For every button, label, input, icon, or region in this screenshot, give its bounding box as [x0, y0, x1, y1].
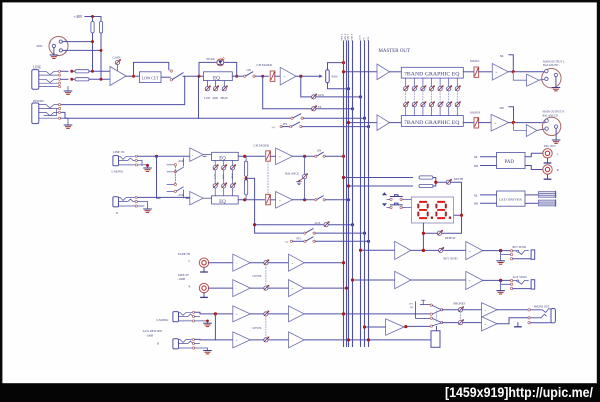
wire REPEAT row [423, 215, 461, 233]
node line ring [70, 78, 73, 81]
button echo up [382, 192, 387, 195]
node R1 join [91, 70, 94, 73]
svg-text:REV SEND: REV SEND [513, 246, 527, 249]
ground XLR R [555, 128, 557, 139]
node aux ret L bus tap [342, 312, 345, 315]
wire preamp out [126, 75, 140, 77]
ground RCA R [547, 174, 549, 179]
svg-text:+: + [485, 322, 487, 326]
op-amp main L output U9 [492, 64, 508, 81]
svg-text:7BAND GRAPHIC EQ: 7BAND GRAPHIC EQ [404, 120, 460, 126]
svg-text:PAN: PAN [332, 75, 339, 79]
connector jack aux return R [173, 339, 179, 349]
wire gang aux level dashed [265, 316, 267, 339]
node EQ output [235, 75, 238, 78]
op-amp master L U7 [377, 64, 390, 80]
resistor phantom R2 [99, 21, 102, 33]
svg-text:MAIN R: MAIN R [470, 110, 480, 114]
svg-text:REPEAT: REPEAT [445, 236, 456, 240]
wire switch to phones pot R [442, 322, 458, 324]
connector INSERT jack [32, 103, 39, 124]
svg-text:7BAND GRAPHIC EQ: 7BAND GRAPHIC EQ [404, 72, 460, 78]
svg-text:-: - [380, 121, 381, 125]
svg-text:PHONE OUT: PHONE OUT [534, 306, 550, 309]
svg-text:L/MONO: L/MONO [157, 318, 170, 322]
op-amp aux ret R buf U24 [289, 332, 305, 348]
button echo down [382, 203, 387, 206]
node ch2 R bus tap [347, 198, 350, 201]
svg-text:ML: ML [474, 194, 478, 197]
connector XLR MIC input [49, 37, 68, 56]
node PFL bus tap ch2 [367, 240, 370, 243]
connector RCA tape L [199, 258, 208, 267]
node master L pickup [342, 70, 345, 73]
box LOW CUT filter [140, 72, 162, 83]
ground tape L [203, 267, 205, 271]
pot FX ch1 [312, 105, 318, 111]
wire tape R to bus [304, 287, 346, 289]
pot DEPTH [446, 179, 452, 185]
wire to GEQ R [390, 122, 402, 124]
ground INSERT jack [61, 118, 68, 124]
ground XLR L [555, 77, 557, 87]
wire LINE ring to R4 [61, 78, 68, 80]
op-amp inverter R U12 [514, 123, 537, 137]
svg-text:PEAK: PEAK [207, 57, 216, 61]
wire FX bus to echo amp [361, 249, 395, 251]
pot PHONES L [458, 306, 464, 312]
node repeat tap [422, 232, 425, 235]
pot EQ HIGH [223, 81, 225, 87]
wire phantom R2 to line bus [100, 33, 102, 79]
svg-text:+: + [292, 261, 294, 265]
svg-text:-10dB: -10dB [146, 333, 154, 337]
node PFL out [404, 325, 407, 328]
pot aux ret LEVEL L [264, 311, 270, 317]
svg-text:LINE IN: LINE IN [113, 150, 125, 154]
svg-text:-: - [192, 197, 193, 201]
wire to level aux L [250, 313, 288, 315]
wire +48V feed [85, 17, 101, 22]
svg-text:HIGH: HIGH [232, 173, 234, 179]
wire EQ L out [238, 155, 264, 157]
svg-text:R: R [157, 341, 159, 345]
wire post row to bus [303, 117, 364, 119]
svg-text:FX: FX [318, 106, 322, 109]
ground tape R [203, 293, 205, 297]
wire LINE tip to R3 [61, 70, 68, 72]
node FX bus tap ch1 [351, 107, 354, 110]
node R bus tap [347, 87, 350, 90]
meter LED bar R [539, 200, 556, 206]
wire insert return [61, 112, 291, 118]
wire bus sub L [348, 41, 350, 347]
wire aux ret L to bus and phones [304, 313, 431, 315]
wire tape L to amp [209, 262, 233, 264]
node post amp [299, 75, 302, 78]
svg-text:CH FADER: CH FADER [254, 144, 270, 148]
node AUX bus tap ch2 [351, 223, 354, 226]
wire display bottom to echo line [422, 223, 424, 250]
svg-text:FX: FX [363, 37, 366, 40]
ground rev send jack [501, 251, 511, 261]
node post row bus tap [363, 117, 366, 120]
ground LINE jack [67, 87, 69, 91]
op-amp tape R in U19 [233, 280, 250, 297]
svg-text:MR: MR [500, 107, 504, 110]
pot stereo EQ LOW pair [214, 161, 216, 196]
wire phantom R1 to line bus [92, 33, 94, 71]
op-amp aux ret L buf U22 [289, 306, 305, 322]
svg-text:MR: MR [474, 203, 478, 206]
svg-text:PHONES: PHONES [454, 302, 466, 306]
svg-text:-: - [529, 79, 530, 83]
wire mix join [433, 178, 446, 187]
svg-text:PFL: PFL [367, 36, 370, 41]
node echo junction [422, 249, 425, 252]
wire gang tape level dashed [265, 265, 267, 286]
wire main L out [508, 71, 545, 73]
node EQ input [198, 75, 201, 78]
wire to level aux R [250, 339, 288, 341]
connector LINE jack [32, 70, 39, 90]
node main R out [512, 121, 515, 124]
pot REPEAT [437, 230, 443, 236]
svg-text:+: + [469, 279, 471, 283]
svg-text:LED DRIVER: LED DRIVER [499, 198, 523, 202]
wire tape L to bus [304, 262, 343, 264]
wire bus FX [364, 41, 366, 347]
wire gang phones dashed [460, 312, 462, 320]
wire echo amp out [411, 249, 466, 251]
ground aux ret R [195, 344, 208, 351]
pot stereo EQ HIGH pair [232, 161, 234, 196]
wire tape R to amp [209, 287, 233, 289]
box 7-band graphic EQ R [401, 116, 463, 127]
node +48V junction [91, 15, 94, 18]
op-amp master R U8 [377, 115, 390, 131]
op-amp echo send U13 [395, 241, 411, 259]
op-amp inverter L U10 [513, 72, 539, 86]
svg-text:CH FADER: CH FADER [257, 63, 273, 67]
wire R3 to preamp [89, 70, 110, 72]
wire bus sub R [352, 41, 354, 347]
wire AUX bus to send amp [353, 279, 395, 281]
svg-text:PFL: PFL [283, 123, 288, 126]
node aux tap ch2 [253, 223, 256, 226]
svg-text:TAPE IN: TAPE IN [178, 252, 191, 256]
wire fader to main amp L [478, 71, 492, 73]
node balance L [303, 155, 306, 158]
node preamp out [132, 75, 135, 78]
node phones load tap [367, 338, 370, 341]
wire low-cut bypass [134, 62, 169, 76]
svg-text:+: + [279, 155, 281, 159]
sliders graphic EQ L (7) [404, 78, 461, 91]
svg-text:ON: ON [410, 307, 414, 309]
connector RCA REC OUT R [543, 165, 552, 174]
pot AUX ch1 [312, 94, 318, 100]
svg-text:-: - [236, 287, 237, 291]
svg-text:LINE: LINE [33, 66, 42, 70]
svg-text:PFL: PFL [297, 238, 302, 241]
svg-text:+: + [485, 308, 487, 312]
wire depth feed R [349, 185, 413, 187]
svg-text:LOW CUT: LOW CUT [142, 76, 160, 80]
svg-text:INSERT: INSERT [33, 99, 44, 103]
wire post R to switch [293, 199, 315, 201]
wire gang GEQ dashed [406, 91, 458, 103]
op-amp tape R buf U20 [289, 280, 305, 297]
node FX bus tap ch2 [363, 232, 366, 235]
svg-text:SUB R: SUB R [351, 33, 354, 40]
wire bus R [346, 41, 348, 347]
svg-text:PFL: PFL [409, 303, 414, 305]
wire FX send ch1 [263, 76, 353, 109]
resistor echo mix L [419, 176, 433, 179]
node R2 join [100, 78, 103, 81]
svg-text:LEVEL: LEVEL [253, 326, 263, 330]
wire aux amp out [411, 279, 466, 281]
ground RCA L [547, 158, 549, 163]
node aux send pickup [351, 278, 354, 281]
sliders graphic EQ R (7) [404, 101, 461, 115]
svg-text:+: + [236, 313, 238, 317]
svg-text:AUX: AUX [315, 222, 321, 225]
svg-text:+: + [279, 199, 281, 203]
node EQ L out [243, 155, 246, 158]
wire PFL bus to amp [365, 326, 386, 328]
pot tape LEVEL R [264, 285, 270, 291]
svg-text:BALANCE: BALANCE [285, 172, 299, 176]
node line tip [70, 70, 73, 73]
meter LED bar L [539, 191, 556, 197]
svg-text:+: + [292, 287, 294, 291]
svg-text:-: - [192, 153, 193, 157]
node L bus tap [342, 61, 345, 64]
switch ON R ch2 [315, 199, 317, 201]
node PFL pickup [363, 325, 366, 328]
wire fader L to amp [270, 155, 276, 157]
wire mono sum down [246, 178, 255, 233]
wire amp R to EQ [203, 197, 211, 199]
svg-text:EQ: EQ [219, 157, 226, 162]
wire FX row ch2 to bus [315, 232, 364, 234]
op-amp post amp R U6 [276, 192, 293, 209]
ground jack R [137, 202, 147, 209]
node mono sum [245, 176, 247, 179]
resistor mono sum L [245, 156, 247, 161]
svg-text:LEVEL: LEVEL [253, 274, 263, 278]
svg-text:L: L [557, 153, 559, 156]
svg-text:-: - [380, 70, 381, 74]
wire PFL amp out [404, 326, 437, 330]
svg-text:+48V: +48V [74, 14, 83, 19]
wire post L to switch [293, 155, 315, 157]
op-amp rev send driver U14 [466, 242, 483, 260]
svg-text:MID: MID [223, 174, 225, 179]
wire amp L to EQ [203, 155, 211, 157]
svg-text:AUX SEND: AUX SEND [513, 276, 527, 279]
box echo time display [412, 197, 454, 223]
op-amp main R output U11 [491, 114, 509, 131]
wire pad to RCA L [525, 153, 543, 156]
wire to GEQ L [390, 71, 402, 73]
switch FX row ch2 [255, 232, 304, 234]
7seg digit 2 [435, 201, 451, 219]
wire low-cut out [161, 76, 170, 78]
svg-text:LOW: LOW [204, 97, 211, 100]
svg-text:MAIN OUTPUT L: MAIN OUTPUT L [543, 60, 565, 63]
wire R tip to amp [137, 196, 189, 199]
box EQ R [212, 196, 239, 204]
pot REV SEND level [439, 247, 445, 253]
pot AUX ch2 [324, 221, 330, 227]
svg-text:R: R [189, 285, 191, 289]
svg-text:-: - [398, 279, 399, 283]
connector jack aux return L [173, 312, 179, 322]
box 7-band graphic EQ L [401, 67, 463, 78]
node rev send out [499, 249, 502, 252]
resistor phones load [431, 331, 440, 348]
op-amp mic preamp U1 [110, 67, 126, 86]
svg-text:-: - [292, 313, 293, 317]
wire driver to meter R [525, 202, 539, 204]
pot EQ LOW [206, 81, 208, 87]
node insert send tap [61, 76, 185, 104]
pot PHONES R [458, 319, 464, 325]
op-amp line amp R U4 [190, 192, 203, 205]
wire pad to RCA R [525, 166, 543, 170]
node PFL bus tap ch1 [367, 125, 370, 128]
box channel EQ [204, 72, 233, 81]
wire gang faders dashed [267, 161, 269, 194]
wire aux ret R to bus and phones load [304, 339, 431, 341]
svg-text:-: - [398, 249, 399, 253]
7seg digit 1 [417, 201, 433, 219]
svg-text:EQ: EQ [213, 76, 220, 82]
wire PFL ch1 to bus [302, 126, 369, 128]
wire fader to main amp R [478, 122, 491, 124]
op-amp aux ret R in U23 [233, 332, 250, 348]
wire XLR pin2 to R1 [62, 41, 92, 43]
op-amp PFL U25 [386, 319, 404, 335]
op-amp channel booster U2 [280, 67, 296, 85]
node jack L ground [146, 164, 149, 167]
pot EQ MID [215, 81, 217, 87]
connector RCA tape R [199, 283, 208, 292]
wire depth to display [451, 182, 462, 215]
svg-text:-: - [292, 339, 293, 343]
frame black border [0, 0, 600, 2]
wire AUX send ch1 [301, 76, 361, 97]
svg-text:-10dB: -10dB [178, 277, 186, 281]
svg-text:MIC: MIC [37, 44, 44, 48]
wire to EQ input [183, 75, 204, 77]
svg-text:AUX: AUX [359, 35, 362, 40]
svg-text:REC OUT: REC OUT [544, 145, 556, 148]
wire gang -20dB dashed [174, 167, 176, 184]
resistor mono sum R [245, 195, 247, 200]
node EQ R out [243, 198, 246, 201]
node aux ret normal tap [214, 312, 217, 315]
svg-text:+: + [284, 75, 286, 79]
pot aux ret LEVEL R [264, 337, 270, 343]
svg-text:EQ: EQ [219, 200, 226, 205]
wire L tip to amp [137, 155, 189, 157]
wire aux send out [483, 279, 511, 281]
node aux send out [499, 279, 502, 282]
op-amp post amp L U5 [276, 148, 293, 165]
wire XLR pin3 to R2 [62, 49, 101, 51]
wire R bus to master amp [349, 122, 378, 124]
node mono normal tap [155, 155, 158, 158]
svg-text:[1459x919]http://upic.me/: [1459x919]http://upic.me/ [445, 385, 593, 400]
node echo pickup [359, 249, 362, 252]
wire to level pot R [250, 287, 288, 289]
node ch2 L bus tap [342, 155, 345, 158]
svg-text:+: + [495, 71, 497, 75]
node tape L bus tap [342, 261, 345, 264]
wire inverter R out [537, 129, 545, 130]
switch post row ch1 [291, 117, 293, 119]
ground XLR pin1 [53, 48, 55, 55]
wire pot to phone amp L [463, 309, 482, 311]
svg-text:MAIN L: MAIN L [470, 59, 480, 63]
wire aux ret R tip [195, 338, 233, 341]
svg-text:MR: MR [474, 165, 478, 168]
svg-text:L/MONO: L/MONO [112, 169, 123, 173]
switch low-cut select [170, 70, 172, 72]
op-amp phones L U26 [482, 303, 498, 317]
node pin2 junction [91, 40, 94, 43]
svg-text:R: R [557, 169, 559, 172]
svg-text:MID: MID [213, 97, 218, 100]
svg-text:MASTER OUT: MASTER OUT [379, 49, 411, 54]
op-amp aux send U15 [395, 271, 411, 288]
svg-text:+: + [495, 121, 497, 125]
svg-text:AUX: AUX [318, 94, 324, 97]
node master R pickup [347, 121, 350, 124]
connector jack R [113, 197, 119, 207]
wire bus AUX [360, 41, 362, 347]
node depth R pickup [347, 184, 350, 187]
node mix join [434, 181, 437, 184]
svg-text:-: - [529, 129, 530, 133]
box LED DRIVER [497, 191, 526, 206]
wire bus L [343, 41, 345, 347]
resistor phantom R1 [91, 21, 94, 33]
svg-text:+: + [469, 249, 471, 253]
wire driver to meter L [525, 194, 539, 196]
pot tape LEVEL L [264, 259, 270, 265]
svg-text:L: L [189, 259, 191, 263]
wire PFL ch2 to bus [315, 240, 368, 242]
node pin3 junction [100, 49, 103, 52]
op-amp tape L in U17 [233, 254, 250, 271]
node balance R [303, 198, 306, 201]
wire switch to phones pot L [442, 309, 458, 311]
wire ch2 R to bus [325, 199, 348, 201]
wire bus PFL [368, 41, 370, 347]
svg-text:R: R [116, 211, 118, 215]
svg-text:-: - [389, 326, 390, 330]
node aux ret R bus tap [347, 338, 350, 341]
op-amp aux ret L in U21 [233, 306, 250, 322]
node AUX bus tap ch1 [359, 95, 362, 98]
resistor R4 [75, 78, 89, 81]
CONTENT [32, 14, 565, 354]
